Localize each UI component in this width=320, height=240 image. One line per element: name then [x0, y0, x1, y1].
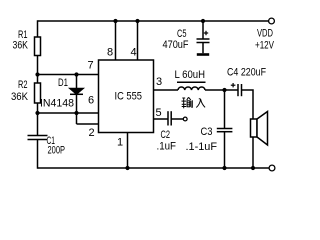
node VDD terminal circle [269, 18, 275, 24]
svg-text:R2: R2 [18, 79, 28, 91]
C5 plus sign [204, 31, 208, 35]
wire R1 top lead [37, 20, 39, 37]
wire pin2 [77, 123, 99, 125]
svg-text:D1: D1 [58, 77, 68, 89]
node junction R1 R2 pin7 [35, 72, 39, 76]
wire pin5 [154, 118, 169, 120]
wire pin8 [115, 21, 117, 60]
svg-text:4: 4 [131, 47, 137, 59]
svg-text:1: 1 [117, 137, 123, 149]
wire C1 top lead [37, 113, 39, 136]
svg-text:2: 2 [89, 127, 95, 139]
wire pin1 [127, 133, 129, 169]
svg-text:200P: 200P [48, 145, 66, 157]
resistor R1 [35, 37, 41, 56]
wire C2 to input terminal [171, 118, 183, 120]
node junction C3 rail [222, 166, 226, 170]
node junction D1 anode [74, 72, 78, 76]
label input (Chinese 输入) [182, 97, 206, 108]
svg-text:.1uF: .1uF [157, 141, 177, 153]
resistor R2 [35, 83, 41, 103]
wire R1 bottom lead [37, 56, 39, 75]
wire L to C4 junction [205, 89, 238, 91]
capacitor C1 [28, 136, 48, 140]
svg-text:L 60uH: L 60uH [175, 69, 206, 81]
capacitor C2 [168, 111, 171, 125]
svg-text:7: 7 [88, 60, 94, 72]
svg-text:5: 5 [156, 107, 162, 119]
node junction pin4 rail [135, 19, 139, 23]
svg-text:.1-1uF: .1-1uF [186, 141, 218, 153]
wire pin3 output [154, 89, 179, 91]
wire speaker bottom lead [252, 137, 254, 168]
capacitor C3 [217, 129, 233, 132]
wire D1 cathode lead [76, 94, 78, 113]
speaker LS [251, 112, 268, 146]
wire C3 top lead [224, 90, 226, 129]
wire C4 to speaker corner [242, 90, 254, 119]
svg-text:36K: 36K [13, 40, 29, 52]
capacitor C4 [238, 84, 242, 96]
node output terminal circle bottom right [269, 165, 275, 171]
svg-text:8: 8 [107, 47, 113, 59]
svg-text:C3: C3 [201, 126, 213, 138]
ground bar C5 [197, 53, 209, 56]
wire C5 bottom lead [202, 43, 204, 54]
wire C5 top lead [202, 21, 204, 39]
node junction R2 C1 pin6 [35, 111, 39, 115]
inductor L 60uH [177, 82, 206, 90]
C4 plus sign [231, 83, 236, 87]
wire C3 bottom lead [224, 132, 226, 168]
diode D1 [70, 89, 83, 95]
wire top rail VDD [38, 20, 269, 22]
wire D1 anode lead [76, 75, 78, 89]
svg-text:VDD: VDD [257, 28, 273, 40]
svg-text:6: 6 [88, 95, 94, 107]
node input terminal circle [183, 117, 187, 121]
op-amp U1 IC 555 box [99, 60, 154, 133]
wire pin2 branch vertical [76, 113, 78, 124]
node junction C5 rail [201, 19, 205, 23]
wire pin7 [38, 74, 99, 76]
svg-text:+12V: +12V [255, 40, 274, 52]
svg-text:IC 555: IC 555 [115, 91, 143, 103]
node junction speaker rail [251, 166, 255, 170]
node junction pin1 rail [125, 166, 129, 170]
wire pin6 [38, 112, 99, 114]
node junction pin3 C3 [222, 88, 226, 92]
svg-text:IN4148: IN4148 [40, 98, 74, 110]
svg-text:470uF: 470uF [163, 39, 189, 51]
svg-text:36K: 36K [11, 91, 29, 103]
svg-text:3: 3 [156, 76, 162, 88]
wire R2 bottom lead [37, 103, 39, 113]
node junction pin8 rail [113, 19, 117, 23]
svg-text:C4 220uF: C4 220uF [227, 67, 266, 79]
svg-text:C2: C2 [161, 129, 171, 141]
wire pin4 [137, 21, 139, 60]
node junction D1 cathode pin6 pin2 [74, 111, 78, 115]
wire C1 bottom lead [37, 140, 39, 169]
wire R2 top lead [37, 75, 39, 84]
wire bottom rail ground [38, 167, 270, 169]
capacitor C5 [197, 39, 210, 43]
